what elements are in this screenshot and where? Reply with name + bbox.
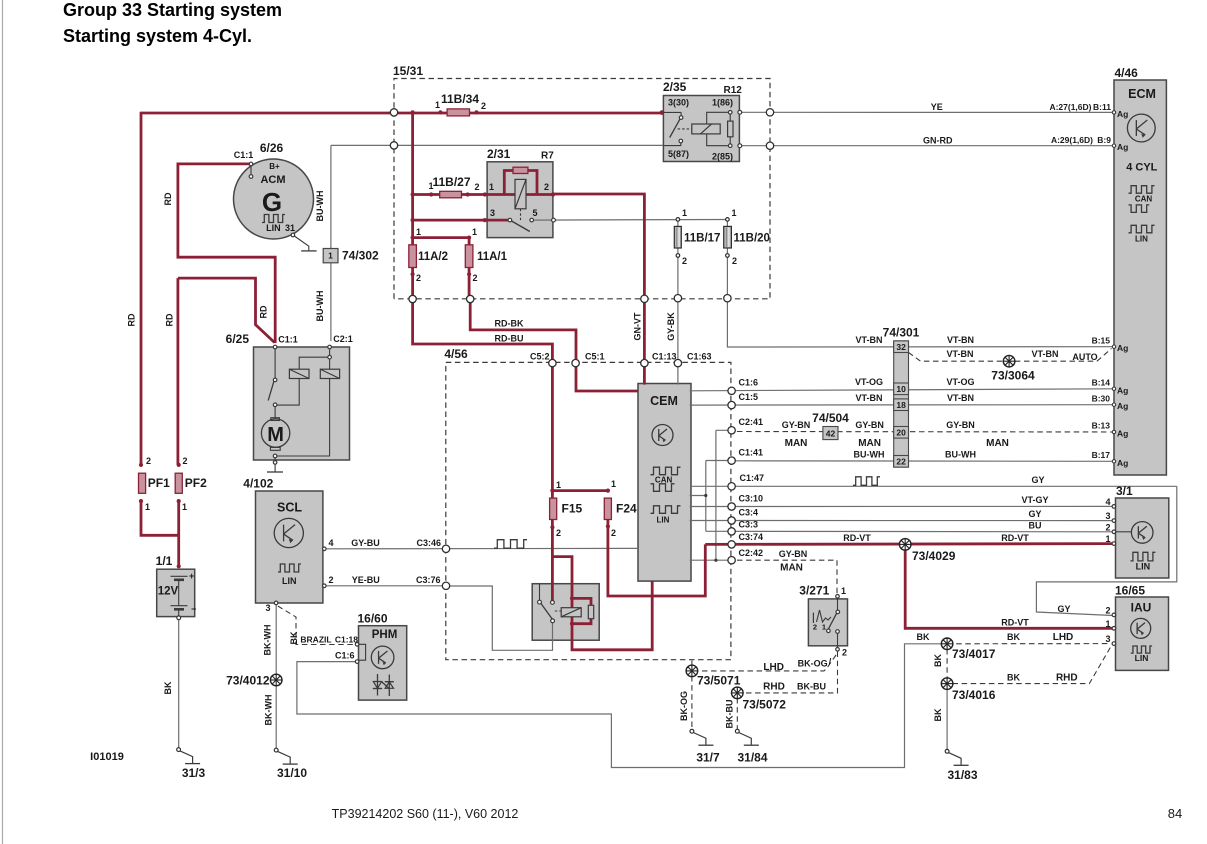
svg-text:RHD: RHD — [1056, 673, 1078, 684]
svg-text:BK: BK — [1007, 632, 1020, 642]
svg-text:VT-OG: VT-OG — [946, 377, 974, 387]
svg-text:4/46: 4/46 — [1115, 66, 1139, 80]
svg-text:C3:74: C3:74 — [739, 532, 764, 542]
svg-text:32: 32 — [896, 342, 906, 352]
svg-text:GN-RD: GN-RD — [923, 136, 953, 146]
svg-text:RD-VT: RD-VT — [1001, 617, 1029, 627]
svg-text:1: 1 — [841, 586, 846, 596]
svg-text:BK-OG: BK-OG — [679, 691, 689, 721]
svg-text:1: 1 — [416, 227, 421, 237]
svg-text:1: 1 — [428, 181, 433, 191]
svg-text:84: 84 — [1168, 806, 1182, 821]
svg-text:LHD: LHD — [763, 662, 784, 673]
svg-text:3: 3 — [490, 208, 495, 218]
svg-text:1: 1 — [611, 479, 616, 489]
svg-text:74/504: 74/504 — [812, 411, 849, 425]
svg-text:11A/2: 11A/2 — [418, 251, 448, 263]
svg-text:GY-BK: GY-BK — [666, 312, 676, 341]
svg-text:1: 1 — [182, 502, 187, 512]
svg-text:MAN: MAN — [780, 563, 803, 574]
svg-text:VT-BN: VT-BN — [856, 393, 883, 403]
svg-text:TP39214202 S60 (11-), V60 2012: TP39214202 S60 (11-), V60 2012 — [332, 807, 519, 821]
svg-text:BU-WH: BU-WH — [945, 450, 976, 460]
svg-text:2: 2 — [146, 456, 151, 466]
svg-text:B:14: B:14 — [1092, 378, 1111, 388]
svg-text:C3:3: C3:3 — [739, 520, 759, 530]
svg-text:31/83: 31/83 — [947, 768, 977, 782]
svg-text:VT-BN: VT-BN — [947, 349, 974, 359]
svg-text:B:13: B:13 — [1092, 421, 1111, 431]
svg-text:2: 2 — [481, 101, 486, 111]
svg-text:RD-VT: RD-VT — [843, 533, 871, 543]
svg-text:PHM: PHM — [372, 629, 398, 641]
svg-text:C1:18: C1:18 — [335, 635, 358, 645]
svg-text:31/3: 31/3 — [182, 766, 206, 780]
svg-text:BU: BU — [1029, 521, 1042, 531]
svg-text:74/302: 74/302 — [342, 249, 379, 263]
svg-text:11A/1: 11A/1 — [477, 251, 508, 263]
svg-text:2: 2 — [556, 528, 561, 538]
svg-text:C2:42: C2:42 — [739, 548, 764, 558]
svg-text:4: 4 — [1105, 497, 1110, 507]
svg-text:Ag: Ag — [1117, 343, 1128, 353]
svg-text:20: 20 — [896, 428, 906, 438]
svg-text:2: 2 — [732, 256, 737, 266]
svg-text:2/31: 2/31 — [487, 147, 511, 161]
svg-text:31/10: 31/10 — [277, 766, 307, 780]
svg-text:BK: BK — [1007, 673, 1020, 683]
svg-text:C5:2: C5:2 — [530, 352, 550, 362]
svg-text:MAN: MAN — [858, 438, 881, 449]
svg-text:Ag: Ag — [1117, 458, 1128, 468]
svg-text:1: 1 — [1105, 619, 1110, 629]
svg-text:B+: B+ — [269, 162, 280, 171]
svg-text:BU-WH: BU-WH — [315, 191, 325, 222]
svg-text:BK-BU: BK-BU — [724, 700, 734, 729]
svg-text:2: 2 — [682, 256, 687, 266]
svg-text:VT-BN: VT-BN — [1032, 349, 1059, 359]
svg-text:12V: 12V — [158, 586, 179, 598]
svg-text:GY-BU: GY-BU — [351, 538, 380, 548]
svg-text:C1:1: C1:1 — [278, 335, 298, 345]
svg-text:LIN: LIN — [1135, 235, 1148, 244]
svg-text:3/271: 3/271 — [799, 583, 829, 597]
svg-text:RD-BK: RD-BK — [495, 319, 524, 329]
svg-text:C1:1: C1:1 — [234, 150, 254, 160]
svg-text:73/4017: 73/4017 — [952, 647, 996, 661]
svg-text:+: + — [189, 571, 194, 581]
svg-text:SCL: SCL — [277, 501, 302, 515]
svg-text:15/31: 15/31 — [393, 64, 423, 78]
svg-text:11B/27: 11B/27 — [432, 175, 470, 189]
svg-text:1: 1 — [145, 502, 150, 512]
svg-text:BK-WH: BK-WH — [264, 695, 274, 726]
svg-text:Ag: Ag — [1117, 385, 1128, 395]
svg-text:VT-BN: VT-BN — [856, 335, 883, 345]
svg-text:CAN: CAN — [1135, 194, 1153, 203]
svg-text:YE: YE — [931, 102, 943, 112]
svg-text:BK-WH: BK-WH — [263, 625, 273, 656]
svg-text:F24: F24 — [616, 502, 637, 516]
svg-text:10: 10 — [896, 384, 906, 394]
svg-text:73/4012: 73/4012 — [226, 674, 270, 688]
svg-text:VT-BN: VT-BN — [947, 335, 974, 345]
svg-text:1: 1 — [435, 100, 440, 110]
svg-text:4 CYL: 4 CYL — [1126, 162, 1157, 174]
svg-text:2: 2 — [813, 623, 817, 632]
svg-text:1: 1 — [328, 251, 333, 261]
svg-text:6/26: 6/26 — [260, 141, 284, 155]
svg-text:PF1: PF1 — [148, 476, 170, 490]
svg-text:1: 1 — [731, 208, 736, 218]
svg-text:74/301: 74/301 — [883, 326, 920, 340]
svg-text:2: 2 — [544, 182, 549, 192]
svg-text:Ag: Ag — [1117, 142, 1128, 152]
svg-text:73/4016: 73/4016 — [952, 688, 996, 702]
svg-text:1: 1 — [682, 208, 687, 218]
svg-text:6/25: 6/25 — [226, 332, 250, 346]
svg-text:F15: F15 — [562, 502, 583, 516]
svg-text:BK: BK — [289, 631, 299, 644]
svg-text:BK: BK — [933, 654, 943, 667]
svg-text:42: 42 — [826, 429, 836, 439]
svg-text:RD: RD — [259, 305, 269, 318]
svg-text:2: 2 — [182, 456, 187, 466]
svg-text:BK: BK — [917, 632, 930, 642]
svg-text:2: 2 — [842, 648, 847, 658]
svg-text:I01019: I01019 — [90, 751, 124, 763]
svg-text:LIN: LIN — [266, 223, 281, 233]
svg-text:LHD: LHD — [1053, 632, 1074, 643]
svg-text:1: 1 — [1105, 534, 1110, 544]
svg-text:73/5072: 73/5072 — [743, 698, 787, 712]
svg-text:G: G — [262, 187, 282, 217]
svg-text:11B/20: 11B/20 — [734, 233, 770, 245]
svg-text:4/102: 4/102 — [243, 477, 273, 491]
svg-text:MAN: MAN — [785, 438, 808, 449]
svg-text:1: 1 — [822, 623, 826, 632]
svg-text:Ag: Ag — [1117, 109, 1128, 119]
svg-text:31: 31 — [285, 223, 295, 233]
svg-text:3(30): 3(30) — [668, 98, 689, 108]
svg-text:IAU: IAU — [1131, 601, 1152, 615]
svg-text:18: 18 — [896, 400, 906, 410]
svg-text:2: 2 — [1105, 605, 1110, 615]
svg-text:31/84: 31/84 — [737, 751, 767, 765]
svg-text:BK: BK — [163, 681, 173, 694]
svg-text:1/1: 1/1 — [156, 554, 173, 568]
svg-text:RHD: RHD — [763, 682, 785, 693]
svg-text:C3:76: C3:76 — [416, 575, 441, 585]
svg-text:BU-WH: BU-WH — [315, 291, 325, 322]
svg-text:BK-OG: BK-OG — [798, 659, 828, 669]
svg-text:C1:41: C1:41 — [739, 448, 764, 458]
svg-text:C5:1: C5:1 — [585, 352, 605, 362]
svg-text:C3:4: C3:4 — [739, 508, 759, 518]
svg-text:22: 22 — [896, 457, 906, 467]
svg-text:A:29(1,6D): A:29(1,6D) — [1051, 135, 1093, 145]
svg-text:B:17: B:17 — [1092, 450, 1111, 460]
svg-text:RD-VT: RD-VT — [1001, 533, 1029, 543]
svg-text:1: 1 — [472, 227, 477, 237]
svg-text:5: 5 — [532, 208, 537, 218]
svg-text:AUTO: AUTO — [1072, 352, 1097, 362]
svg-text:A:27(1,6D): A:27(1,6D) — [1049, 102, 1091, 112]
svg-text:Ag: Ag — [1117, 429, 1128, 439]
svg-text:GY: GY — [1057, 604, 1070, 614]
svg-text:BRAZIL: BRAZIL — [300, 635, 331, 645]
svg-text:1: 1 — [556, 480, 561, 490]
svg-text:C3:10: C3:10 — [739, 494, 764, 504]
svg-text:RD: RD — [127, 313, 137, 326]
svg-text:B:15: B:15 — [1092, 336, 1111, 346]
svg-text:C2:41: C2:41 — [739, 417, 764, 427]
svg-text:RD-BU: RD-BU — [495, 334, 524, 344]
svg-text:LIN: LIN — [1136, 562, 1151, 572]
svg-text:2(85): 2(85) — [712, 152, 733, 162]
svg-text:B:9: B:9 — [1097, 135, 1111, 145]
svg-text:ECM: ECM — [1128, 87, 1156, 101]
svg-text:GY: GY — [1031, 475, 1044, 485]
svg-text:CEM: CEM — [650, 394, 678, 408]
svg-text:ACM: ACM — [260, 174, 285, 186]
svg-text:Starting system 4-Cyl.: Starting system 4-Cyl. — [63, 26, 252, 46]
svg-text:GY-BN: GY-BN — [782, 420, 811, 430]
svg-text:VT-OG: VT-OG — [855, 377, 883, 387]
svg-text:4: 4 — [329, 538, 334, 548]
svg-text:2/35: 2/35 — [663, 80, 687, 94]
svg-text:2: 2 — [329, 575, 334, 585]
svg-text:R12: R12 — [724, 85, 743, 96]
svg-text:RD: RD — [165, 313, 175, 326]
svg-text:2: 2 — [416, 273, 421, 283]
svg-text:B:30: B:30 — [1092, 394, 1111, 404]
svg-text:Group 33 Starting system: Group 33 Starting system — [63, 0, 282, 20]
svg-text:11B/34: 11B/34 — [441, 92, 479, 106]
svg-text:3/1: 3/1 — [1116, 484, 1133, 498]
svg-text:LIN: LIN — [657, 516, 670, 525]
svg-text:31/7: 31/7 — [696, 751, 720, 765]
svg-text:Ag: Ag — [1117, 401, 1128, 411]
svg-text:2: 2 — [474, 182, 479, 192]
svg-text:C1:6: C1:6 — [739, 378, 759, 388]
svg-text:BK-BU: BK-BU — [797, 682, 826, 692]
svg-text:1(86): 1(86) — [712, 98, 733, 108]
svg-text:2: 2 — [1105, 522, 1110, 532]
svg-text:73/3064: 73/3064 — [991, 369, 1035, 383]
svg-text:LIN: LIN — [282, 576, 297, 586]
svg-text:MAN: MAN — [986, 438, 1009, 449]
svg-text:LIN: LIN — [1135, 653, 1149, 663]
svg-text:C1:47: C1:47 — [740, 473, 765, 483]
svg-text:16/65: 16/65 — [1115, 584, 1145, 598]
svg-text:16/60: 16/60 — [357, 612, 387, 626]
svg-text:5(87): 5(87) — [668, 149, 689, 159]
svg-text:RD: RD — [163, 192, 173, 205]
svg-text:GY-BN: GY-BN — [855, 420, 884, 430]
svg-text:C1:13: C1:13 — [652, 352, 677, 362]
svg-text:BU-WH: BU-WH — [854, 450, 885, 460]
svg-text:GY: GY — [1028, 509, 1041, 519]
svg-text:C1:6: C1:6 — [335, 650, 355, 660]
svg-text:−: − — [191, 604, 196, 614]
svg-text:C3:46: C3:46 — [416, 538, 441, 548]
svg-text:11B/17: 11B/17 — [684, 233, 720, 245]
svg-text:3: 3 — [1105, 511, 1110, 521]
svg-text:PF2: PF2 — [185, 476, 207, 490]
svg-text:VT-BN: VT-BN — [947, 393, 974, 403]
svg-text:3: 3 — [1105, 634, 1110, 644]
svg-text:YE-BU: YE-BU — [352, 575, 380, 585]
svg-text:2: 2 — [472, 273, 477, 283]
svg-text:3: 3 — [265, 603, 270, 613]
svg-text:GY-BN: GY-BN — [779, 549, 808, 559]
svg-text:C2:1: C2:1 — [333, 334, 353, 344]
svg-text:1: 1 — [489, 182, 494, 192]
svg-text:BK: BK — [933, 708, 943, 721]
svg-text:73/5071: 73/5071 — [697, 674, 741, 688]
svg-text:GN-VT: GN-VT — [633, 312, 643, 341]
svg-text:4/56: 4/56 — [444, 347, 468, 361]
svg-text:GY-BN: GY-BN — [946, 420, 975, 430]
svg-text:C1:63: C1:63 — [687, 352, 712, 362]
svg-text:C1:5: C1:5 — [739, 392, 759, 402]
svg-text:R7: R7 — [541, 151, 554, 162]
svg-text:B:11: B:11 — [1093, 102, 1111, 112]
svg-text:VT-GY: VT-GY — [1021, 495, 1048, 505]
svg-text:M: M — [267, 424, 284, 446]
svg-text:73/4029: 73/4029 — [912, 549, 956, 563]
svg-text:2: 2 — [611, 528, 616, 538]
